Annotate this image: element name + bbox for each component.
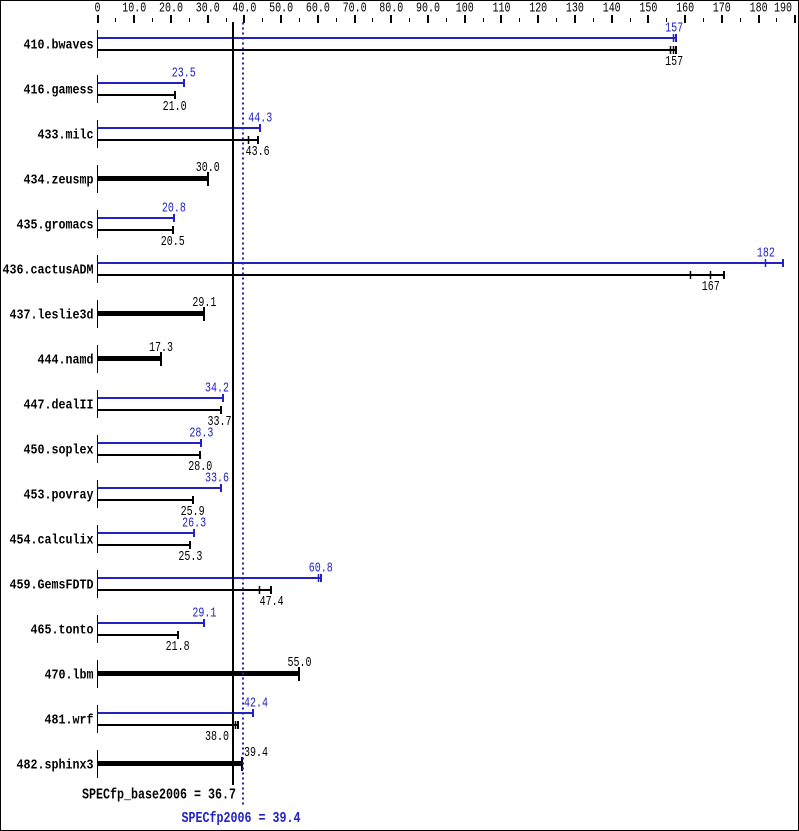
svg-text:110: 110 <box>493 1 511 17</box>
svg-text:450.soplex: 450.soplex <box>24 443 94 459</box>
svg-text:23.5: 23.5 <box>172 66 196 82</box>
svg-text:157: 157 <box>665 21 683 37</box>
svg-text:33.6: 33.6 <box>205 471 229 487</box>
svg-text:0: 0 <box>95 1 101 17</box>
svg-text:39.4: 39.4 <box>244 745 268 761</box>
svg-text:482.sphinx3: 482.sphinx3 <box>17 758 94 774</box>
svg-text:47.4: 47.4 <box>260 594 284 610</box>
svg-text:80.0: 80.0 <box>379 1 403 17</box>
svg-text:481.wrf: 481.wrf <box>45 713 94 729</box>
svg-text:20.0: 20.0 <box>159 1 183 17</box>
svg-text:20.5: 20.5 <box>161 234 185 250</box>
svg-text:21.8: 21.8 <box>166 639 190 655</box>
svg-text:34.2: 34.2 <box>205 381 229 397</box>
svg-text:190: 190 <box>774 1 792 17</box>
svg-text:90.0: 90.0 <box>416 1 440 17</box>
svg-text:436.cactusADM: 436.cactusADM <box>3 263 94 279</box>
svg-text:70.0: 70.0 <box>343 1 367 17</box>
svg-text:435.gromacs: 435.gromacs <box>17 218 94 234</box>
svg-text:20.8: 20.8 <box>162 201 186 217</box>
svg-text:465.tonto: 465.tonto <box>31 623 94 639</box>
svg-text:182: 182 <box>757 246 775 262</box>
svg-text:170: 170 <box>713 1 731 17</box>
svg-text:26.3: 26.3 <box>182 516 206 532</box>
svg-text:44.3: 44.3 <box>248 111 272 127</box>
svg-text:447.dealII: 447.dealII <box>24 398 94 414</box>
svg-text:50.0: 50.0 <box>269 1 293 17</box>
svg-text:28.3: 28.3 <box>189 426 213 442</box>
svg-text:55.0: 55.0 <box>288 655 312 671</box>
svg-text:180: 180 <box>750 1 768 17</box>
svg-text:10.0: 10.0 <box>122 1 146 17</box>
svg-text:60.0: 60.0 <box>306 1 330 17</box>
svg-text:459.GemsFDTD: 459.GemsFDTD <box>10 578 94 594</box>
svg-text:60.8: 60.8 <box>309 561 333 577</box>
svg-text:30.0: 30.0 <box>196 160 220 176</box>
svg-text:157: 157 <box>665 54 683 70</box>
svg-text:437.leslie3d: 437.leslie3d <box>10 308 94 324</box>
svg-text:434.zeusmp: 434.zeusmp <box>24 173 94 189</box>
svg-text:43.6: 43.6 <box>246 144 270 160</box>
svg-text:470.lbm: 470.lbm <box>45 668 94 684</box>
svg-text:29.1: 29.1 <box>192 295 216 311</box>
svg-text:416.gamess: 416.gamess <box>24 83 94 99</box>
svg-text:444.namd: 444.namd <box>38 353 94 369</box>
svg-text:160: 160 <box>676 1 694 17</box>
svg-text:SPECfp_base2006 = 36.7: SPECfp_base2006 = 36.7 <box>82 787 236 804</box>
svg-text:453.povray: 453.povray <box>24 488 94 504</box>
svg-text:42.4: 42.4 <box>244 696 268 712</box>
svg-text:433.milc: 433.milc <box>38 128 94 144</box>
svg-text:120: 120 <box>529 1 547 17</box>
svg-text:130: 130 <box>566 1 584 17</box>
svg-text:150: 150 <box>639 1 657 17</box>
svg-text:167: 167 <box>702 279 720 295</box>
svg-text:454.calculix: 454.calculix <box>10 533 94 549</box>
svg-text:21.0: 21.0 <box>163 99 187 115</box>
svg-text:38.0: 38.0 <box>205 729 229 745</box>
svg-text:140: 140 <box>603 1 621 17</box>
svg-text:40.0: 40.0 <box>232 1 256 17</box>
svg-text:17.3: 17.3 <box>149 340 173 356</box>
svg-text:25.3: 25.3 <box>178 549 202 565</box>
svg-text:SPECfp2006 = 39.4: SPECfp2006 = 39.4 <box>182 810 301 827</box>
svg-text:30.0: 30.0 <box>196 1 220 17</box>
svg-text:29.1: 29.1 <box>192 606 216 622</box>
svg-text:410.bwaves: 410.bwaves <box>24 38 94 54</box>
svg-text:100: 100 <box>456 1 474 17</box>
